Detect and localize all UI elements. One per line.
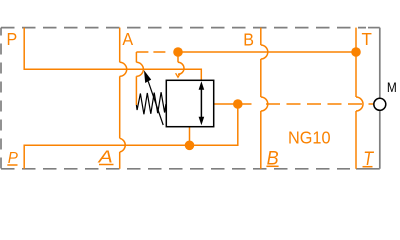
junction pilot dot	[173, 47, 183, 57]
svg-text:T: T	[362, 29, 373, 49]
plate outline right (solid)	[379, 28, 381, 169]
valve flow path double arrow	[199, 81, 205, 125]
label T top	[362, 29, 373, 49]
svg-text:P: P	[7, 30, 18, 50]
wire B pass-through with two crossover hops	[261, 28, 268, 169]
wire gauge line M (valve right to measuring port)	[214, 103, 373, 105]
label A bottom (italic underlined)	[98, 147, 114, 167]
label P top	[7, 30, 18, 50]
junction gauge dot	[233, 99, 243, 109]
label P bottom (italic underlined)	[7, 149, 18, 166]
valve body U1	[166, 80, 213, 126]
wire valve bottom to drain junction	[189, 127, 191, 146]
adjustment arrow through spring	[144, 70, 163, 125]
junction T dot	[351, 47, 361, 57]
wire pilot arrow onto valve top	[176, 52, 184, 77]
wire A pass-through with two crossover hops	[120, 28, 127, 169]
svg-text:NG10: NG10	[288, 128, 331, 148]
wire pilot dashed to spring side	[136, 52, 167, 105]
plate outline bottom (dashed)	[1, 168, 380, 170]
wire bottom P up to gauge junction	[24, 104, 238, 169]
wire pilot junction to T line	[178, 51, 356, 53]
label T bottom (italic underlined)	[363, 148, 375, 170]
svg-text:B: B	[267, 147, 279, 169]
wire P top: port P down then right into valve top	[24, 28, 201, 81]
label B top	[243, 30, 254, 50]
svg-text:M: M	[387, 79, 397, 95]
label NG10 size	[288, 128, 331, 148]
plate outline top (dashed)	[1, 27, 380, 29]
svg-text:A: A	[122, 29, 133, 49]
label B bottom (italic underlined)	[266, 147, 278, 169]
label A top	[122, 29, 133, 49]
junction drain dot	[185, 141, 195, 151]
wire T pass-through with hop over gauge line	[356, 28, 363, 169]
plate outline left (dashed)	[0, 28, 2, 169]
svg-text:B: B	[243, 30, 254, 50]
spring (adjustable)	[136, 92, 166, 114]
measuring port circle M	[374, 98, 386, 110]
label M gauge port	[387, 79, 397, 95]
